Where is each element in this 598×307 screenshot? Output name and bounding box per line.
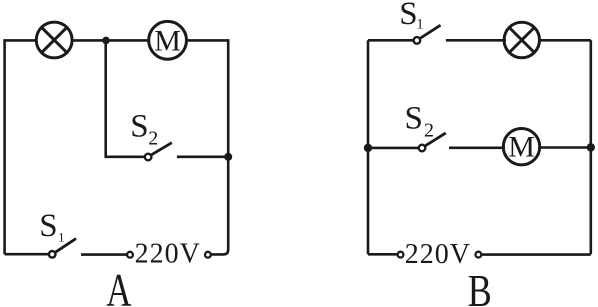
switch S2 (circuit A): pivot circle and lever — [145, 143, 172, 161]
wire: motor to top-right corner, A right side down, bottom-right corner to right terminal — [186, 40, 229, 254]
node: junction on B left side (middle branch) — [364, 144, 372, 152]
wire: motor to B right side junction — [539, 146, 591, 149]
terminal: 220V left terminal (B) — [398, 252, 404, 258]
svg-text:2: 2 — [424, 120, 434, 142]
wire: circuit A left side, top-left corner, top wire to lamp — [5, 40, 37, 254]
wire: right terminal to B bottom-right corner — [482, 253, 591, 256]
svg-text:220V: 220V — [135, 239, 201, 270]
switch S2 (circuit B): pivot circle and lever — [419, 133, 446, 151]
wire: A bottom-left to switch S1 — [5, 253, 48, 256]
terminal: 220V right terminal (A) — [205, 252, 211, 258]
motor M (circuit B) — [503, 129, 539, 165]
svg-text:S: S — [39, 208, 57, 244]
terminal: 220V left terminal (A) — [127, 252, 133, 258]
svg-text:220V: 220V — [405, 239, 471, 270]
lamp (circuit A): circle with X — [36, 22, 72, 58]
wire: lamp to junction (A top) — [72, 39, 107, 42]
node: junction on B right side (middle branch) — [587, 143, 595, 151]
wire: S1 lever to left supply terminal (A) — [81, 253, 127, 256]
wire: S2 lever to motor (B middle) — [449, 147, 505, 150]
node: junction on A top wire — [102, 37, 110, 45]
label S1 (circuit A) — [39, 208, 64, 244]
svg-text:M: M — [154, 24, 181, 57]
label S2 (circuit A) — [130, 109, 158, 150]
wire: circuit B left side — [367, 40, 370, 254]
svg-text:2: 2 — [148, 127, 158, 149]
svg-text:1: 1 — [58, 229, 65, 244]
node: junction on A right side (S2 branch tie-in) — [224, 153, 232, 161]
wire: S1 lever to lamp (B top) — [446, 39, 506, 42]
switch S1 (circuit A): pivot circle and lever — [49, 239, 76, 258]
label S1 (circuit B) — [399, 0, 423, 32]
wire: circuit B right side — [589, 40, 592, 254]
wire: B bottom-left corner to left supply terminal — [368, 253, 397, 256]
wire: S2 lever to A right side — [177, 156, 228, 159]
svg-text:S: S — [130, 109, 148, 145]
wire: B top-left corner to switch S1 pivot — [368, 39, 413, 42]
svg-text:M: M — [508, 131, 535, 164]
wire: junction to motor (A top) — [106, 39, 150, 42]
svg-text:B: B — [468, 266, 492, 307]
wire: lamp to top-right corner (B) — [539, 39, 591, 42]
svg-text:A: A — [106, 264, 131, 307]
svg-text:S: S — [399, 0, 417, 32]
switch S1 (circuit B): pivot circle and lever — [414, 25, 441, 44]
wire: S2 branch from top junction down then right to switch pivot (A) — [106, 40, 145, 156]
svg-text:S: S — [405, 100, 423, 136]
motor M (circuit A) — [149, 21, 187, 59]
wire: B left junction to switch S2 pivot — [368, 147, 418, 150]
label S2 (circuit B) — [405, 100, 435, 141]
svg-text:1: 1 — [416, 16, 423, 32]
lamp (circuit B): circle with X — [504, 22, 539, 57]
terminal: 220V right terminal (B) — [476, 252, 482, 258]
